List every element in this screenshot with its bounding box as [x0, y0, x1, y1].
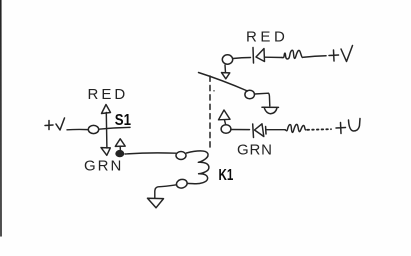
wire lower contact to LED D2 [231, 129, 250, 131]
LED D2 right bar [265, 127, 267, 135]
arrowhead up (RED position) [102, 105, 111, 114]
wire S1 stub right [99, 127, 130, 129]
svg-text:RED: RED [246, 29, 288, 46]
relay K1 coil windings [187, 151, 209, 184]
svg-text:S1: S1 [115, 112, 132, 129]
down arrow below upper contact [222, 65, 230, 79]
LED D1 cathode bar [252, 48, 255, 64]
dotted wire to +U [308, 128, 332, 131]
lower contact circle (to GRN LED) [221, 125, 231, 134]
node +V (top right) [329, 46, 353, 62]
upper contact circle (to RED LED) [222, 55, 232, 64]
wire LED D1 to resistor [265, 56, 282, 58]
LED D1 triangle [256, 49, 265, 62]
arrowhead down (GRN position) [101, 148, 110, 156]
relay K1 coil bottom terminal loop [176, 178, 189, 189]
svg-text:GRN: GRN [237, 142, 273, 159]
wire LED D2 to resistor [267, 129, 285, 131]
node +V (left supply) [45, 118, 65, 130]
svg-text:RED: RED [88, 86, 129, 103]
resistor squiggle (GRN) [285, 124, 306, 132]
ground (relay coil) [148, 198, 164, 208]
wire coil to ground [155, 185, 177, 198]
svg-text:K1: K1 [219, 167, 234, 184]
wire upper contact to LED D1 [233, 58, 251, 59]
LED D2 cathode bar [252, 124, 255, 138]
relay contact common blade (diagonal) [199, 73, 248, 92]
wire throw to relay coil K1 [125, 153, 176, 154]
speck [213, 90, 215, 92]
wire +V to S1 pole [67, 128, 88, 130]
svg-text:GRN: GRN [84, 157, 123, 174]
wire resistor to +V (top right) [304, 56, 327, 58]
node +U (bottom right) [336, 119, 360, 134]
ground (blade contact) [262, 107, 279, 114]
switch S1 pole contact [88, 125, 98, 133]
wire blade contact to ground [255, 93, 270, 106]
dashed actuation link [209, 76, 211, 150]
resistor squiggle (RED) [282, 50, 303, 59]
switch S1 blade (vertical) [105, 113, 108, 149]
blade end contact circle [245, 90, 255, 99]
scan edge line [0, 0, 2, 236]
relay K1 coil top terminal loop [176, 152, 186, 160]
LED D2 triangle [255, 124, 264, 137]
throw contact with up arrow [115, 139, 125, 157]
up arrow above lower contact [219, 110, 231, 124]
